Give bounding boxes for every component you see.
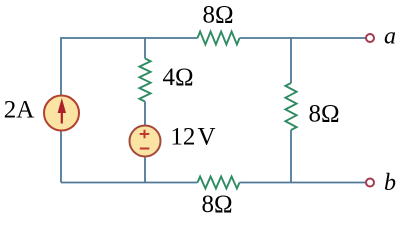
- minus sign: [140, 148, 150, 150]
- resistor 8ohm top: [198, 32, 240, 45]
- terminal b: [366, 179, 374, 187]
- wire right branch top: [290, 38, 292, 83]
- wire right branch bottom: [290, 130, 292, 183]
- svg-text:12 V: 12 V: [170, 124, 215, 151]
- svg-text:8Ω: 8Ω: [201, 191, 232, 214]
- svg-text:b: b: [384, 170, 396, 196]
- svg-text:2A: 2A: [4, 97, 35, 124]
- resistor 4ohm: [139, 59, 150, 102]
- plus sign: [140, 130, 150, 138]
- terminal a: [366, 34, 374, 42]
- current source arrow: [61, 111, 63, 124]
- svg-text:8Ω: 8Ω: [202, 2, 233, 29]
- wire top-left segment: [61, 38, 198, 183]
- svg-text:8Ω: 8Ω: [308, 101, 339, 128]
- wire bottom segment: [61, 182, 198, 184]
- wire middle branch top: [144, 38, 146, 59]
- resistor 8ohm right: [285, 83, 296, 130]
- wire middle branch bottom: [144, 102, 146, 183]
- svg-text:4Ω: 4Ω: [162, 64, 193, 91]
- wire bottom-right segment: [240, 182, 367, 184]
- wire top-right segment: [240, 37, 367, 39]
- current source I1 2A: [44, 96, 79, 131]
- svg-text:a: a: [384, 24, 396, 50]
- resistor 8ohm bottom: [198, 177, 240, 189]
- voltage source V1 12V: [130, 126, 161, 157]
